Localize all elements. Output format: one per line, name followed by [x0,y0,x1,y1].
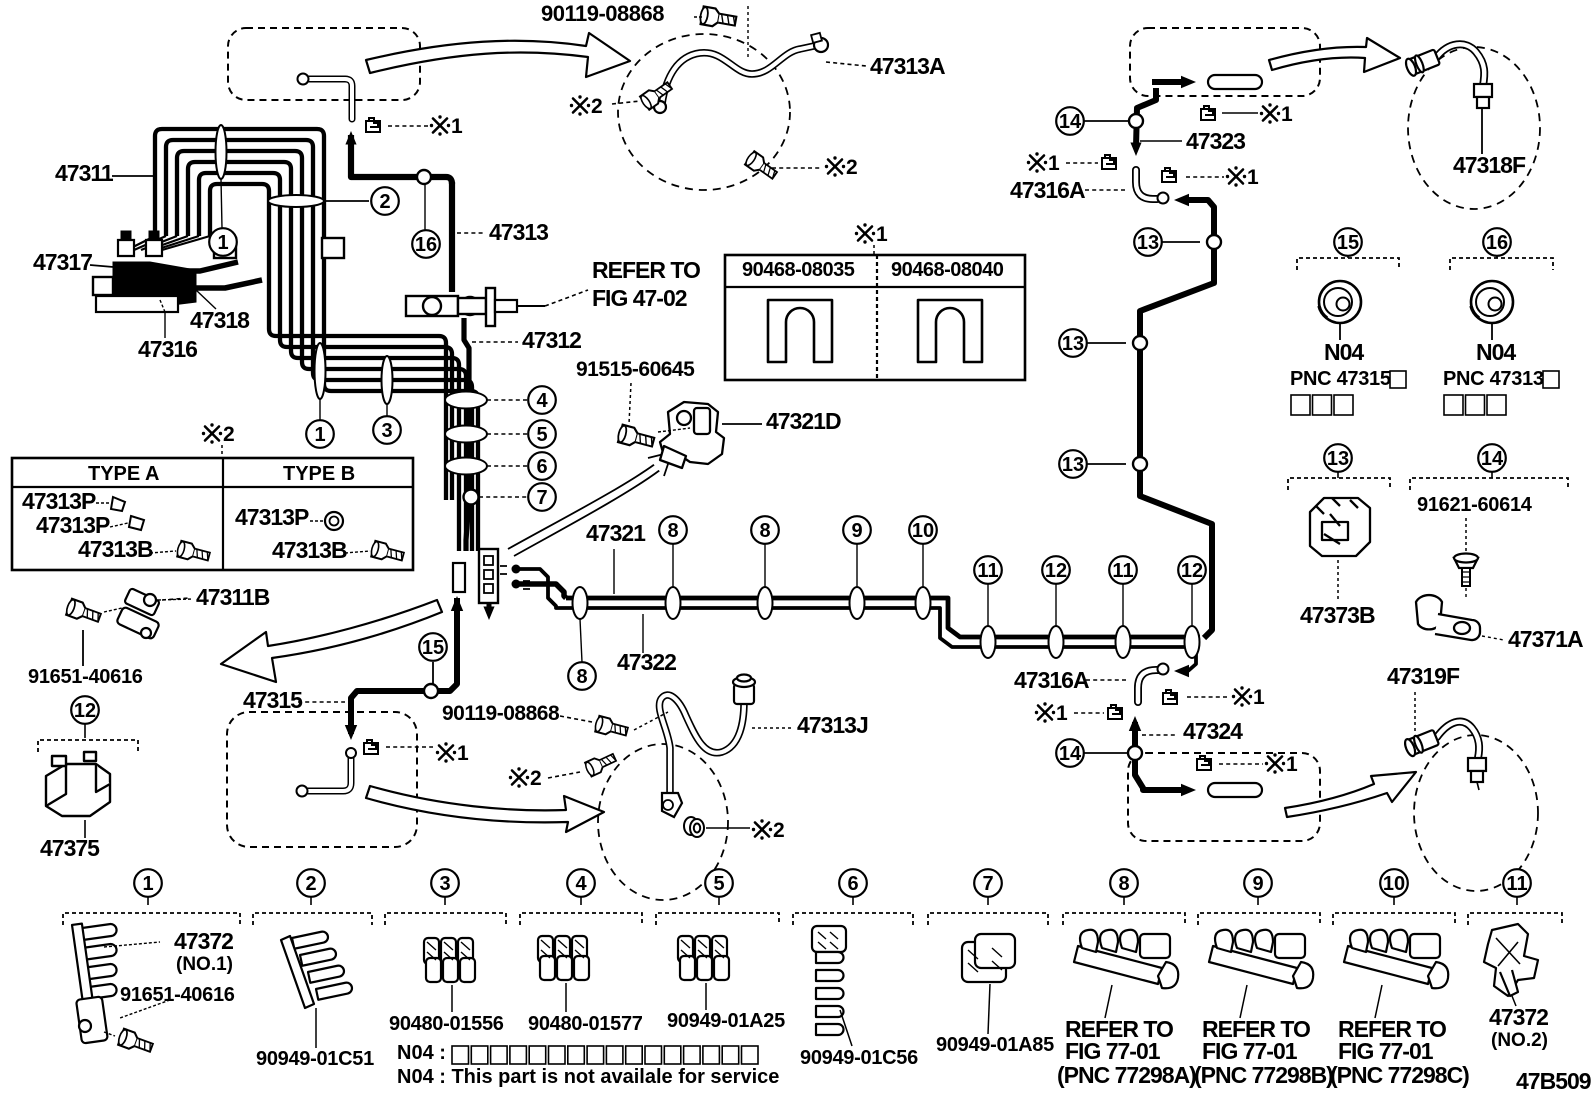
svg-text:2: 2 [773,819,785,842]
svg-text:REFER TO: REFER TO [592,257,700,283]
svg-text:90480-01556: 90480-01556 [389,1013,504,1035]
svg-text:47313B: 47313B [78,536,153,562]
svg-text:16: 16 [415,234,437,256]
svg-text:47317: 47317 [33,249,92,275]
svg-text:FIG 77-01: FIG 77-01 [1202,1038,1298,1064]
svg-text:2: 2 [305,873,316,895]
svg-text:11: 11 [1506,873,1527,895]
svg-text:12: 12 [1181,560,1203,582]
svg-text:10: 10 [1383,873,1405,895]
svg-text:13: 13 [1062,333,1084,355]
svg-text:4: 4 [536,390,548,412]
svg-text:6: 6 [847,873,858,895]
svg-text:N04 : This part is not availal: N04 : This part is not availale for serv… [397,1066,779,1088]
svg-text:9: 9 [851,520,862,542]
svg-text:47313B: 47313B [272,537,347,563]
svg-text:(PNC 77298C): (PNC 77298C) [1330,1062,1469,1088]
svg-text:2: 2 [530,767,542,790]
svg-text:PNC 47315: PNC 47315 [1290,368,1391,390]
svg-text:FIG 77-01: FIG 77-01 [1338,1038,1434,1064]
svg-text:(NO.2): (NO.2) [1491,1030,1548,1051]
svg-text:N04: N04 [1476,339,1516,365]
svg-text:47371A: 47371A [1508,626,1583,652]
svg-text:2: 2 [846,156,858,179]
svg-text:12: 12 [1045,560,1067,582]
svg-text:47311B: 47311B [196,584,270,610]
svg-text:47313P: 47313P [22,488,96,514]
svg-text:47313J: 47313J [797,712,868,738]
svg-text:FIG 77-01: FIG 77-01 [1065,1038,1161,1064]
svg-text:12: 12 [74,700,96,722]
svg-text:91651-40616: 91651-40616 [120,984,235,1006]
svg-text:6: 6 [536,456,547,478]
svg-text:47313P: 47313P [235,504,309,530]
svg-text:4: 4 [575,873,587,895]
svg-text:11: 11 [1112,560,1133,582]
svg-text:90949-01A25: 90949-01A25 [667,1010,785,1032]
svg-text:1: 1 [451,115,463,138]
svg-text:47318: 47318 [190,307,250,333]
svg-text:47375: 47375 [40,835,100,861]
svg-text:(NO.1): (NO.1) [176,954,233,975]
svg-text:1: 1 [876,223,888,246]
svg-text:7: 7 [536,487,547,509]
svg-text:13: 13 [1327,448,1349,470]
svg-text:1: 1 [314,424,325,446]
svg-text:(PNC 77298B): (PNC 77298B) [1194,1062,1333,1088]
svg-text:2: 2 [223,423,235,446]
svg-text:13: 13 [1137,232,1159,254]
svg-text:47311: 47311 [55,160,114,186]
svg-text:47312: 47312 [522,327,581,353]
svg-text:1: 1 [142,873,153,895]
svg-text:1: 1 [1253,686,1265,709]
svg-text:10: 10 [912,520,934,542]
svg-text:47323: 47323 [1186,128,1245,154]
svg-text:47321D: 47321D [766,408,841,434]
svg-text:1: 1 [457,742,469,765]
svg-text:1: 1 [1281,103,1293,126]
svg-text:91621-60614: 91621-60614 [1417,494,1533,516]
svg-text:47373B: 47373B [1300,602,1375,628]
svg-text:N04: N04 [1324,339,1364,365]
svg-text:16: 16 [1486,232,1508,254]
svg-text:1: 1 [1048,152,1060,175]
svg-text:7: 7 [982,873,993,895]
svg-text:47316A: 47316A [1010,177,1085,203]
svg-text:47316A: 47316A [1014,667,1089,693]
svg-text:90119-08868: 90119-08868 [442,702,560,725]
svg-text:TYPE B: TYPE B [283,463,355,485]
svg-text:FIG 47-02: FIG 47-02 [592,285,687,311]
svg-text:8: 8 [576,666,587,688]
svg-text:1: 1 [1286,753,1298,776]
svg-text:8: 8 [759,520,770,542]
svg-text:47B509: 47B509 [1516,1068,1591,1094]
svg-text:47319F: 47319F [1387,663,1460,689]
svg-text:3: 3 [439,873,450,895]
svg-text:47313P: 47313P [36,512,110,538]
svg-text:47324: 47324 [1183,718,1243,744]
svg-text:TYPE A: TYPE A [88,463,160,485]
svg-text:8: 8 [1118,873,1129,895]
svg-text:90468-08035: 90468-08035 [742,259,855,281]
svg-text:47372: 47372 [1489,1004,1548,1030]
svg-text:14: 14 [1481,448,1504,470]
svg-text:90119-08868: 90119-08868 [541,1,664,26]
svg-text:15: 15 [1337,232,1359,254]
svg-text:1: 1 [1247,166,1259,189]
svg-text:14: 14 [1059,743,1082,765]
svg-text:90480-01577: 90480-01577 [528,1013,643,1035]
svg-text:90949-01C51: 90949-01C51 [256,1048,374,1070]
svg-text:90949-01A85: 90949-01A85 [936,1034,1054,1056]
svg-text:11: 11 [977,560,998,582]
svg-text:N04 :: N04 : [397,1042,446,1064]
svg-text:47318F: 47318F [1453,152,1526,178]
svg-text:2: 2 [591,95,603,118]
svg-text:5: 5 [713,873,724,895]
svg-text:47322: 47322 [617,649,676,675]
svg-text:47313: 47313 [489,219,548,245]
svg-text:91515-60645: 91515-60645 [576,358,695,381]
svg-text:47372: 47372 [174,928,233,954]
svg-text:90949-01C56: 90949-01C56 [800,1047,918,1069]
svg-text:91651-40616: 91651-40616 [28,666,143,688]
svg-text:8: 8 [667,520,678,542]
svg-text:13: 13 [1062,454,1084,476]
svg-text:14: 14 [1059,111,1082,133]
svg-text:9: 9 [1252,873,1263,895]
svg-text:90468-08040: 90468-08040 [891,259,1004,281]
svg-text:47316: 47316 [138,336,197,362]
svg-text:1: 1 [1056,702,1068,725]
svg-text:3: 3 [381,420,392,442]
svg-text:47315: 47315 [243,687,303,713]
svg-text:(PNC 77298A): (PNC 77298A) [1057,1062,1196,1088]
svg-text:47321: 47321 [586,520,646,546]
svg-text:1: 1 [217,232,228,254]
svg-text:5: 5 [536,424,547,446]
svg-text:2: 2 [379,191,390,213]
svg-text:PNC 47313: PNC 47313 [1443,368,1544,390]
svg-text:15: 15 [422,637,444,659]
svg-text:47313A: 47313A [870,53,945,79]
